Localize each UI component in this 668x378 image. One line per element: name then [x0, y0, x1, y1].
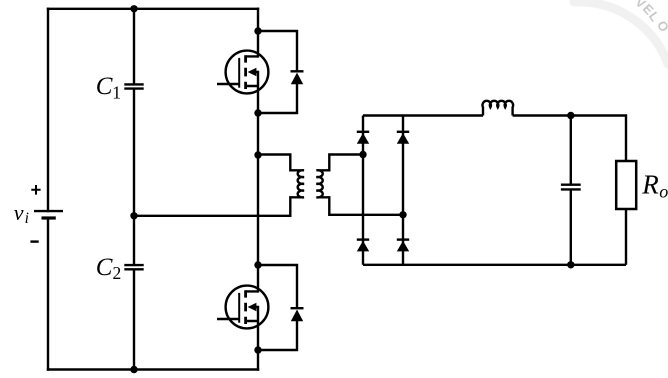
wire resistor bottom lead [625, 209, 627, 265]
voltage source Vi plate long [34, 210, 63, 212]
svg-text:C: C [96, 254, 113, 281]
node Q2 source / D2 [254, 346, 261, 353]
node bottom rail / C branch [130, 366, 137, 373]
diode D3 (upper left) [357, 132, 369, 144]
label + [31, 185, 40, 195]
inductor L [483, 101, 514, 116]
wire mid horizontal to transformer [134, 215, 290, 217]
wire main leg Q2 body to bottom rail [257, 307, 259, 370]
wire bridge right leg [402, 116, 404, 265]
wire diode D1 branch [258, 31, 297, 113]
node secondary top / bridge left leg [359, 151, 366, 158]
wire capacitor branch lower [133, 270, 135, 369]
transformer T1 primary [258, 155, 304, 216]
wire main leg top rail to Q1 drain [257, 9, 259, 57]
node output top / Co [567, 112, 574, 119]
wire bridge top rail [363, 114, 483, 116]
wire capacitor branch middle [133, 90, 135, 264]
diode D2 (Q2 body diode) [291, 308, 304, 321]
node Q1 source / D1 [254, 109, 261, 116]
svg-text:2: 2 [113, 263, 122, 283]
wire diode D2 branch [258, 265, 297, 350]
capacitor Co plates [561, 185, 581, 190]
svg-text:v: v [14, 200, 24, 225]
wire main leg Q1 body to Q2 drain [257, 72, 259, 291]
svg-text:R: R [641, 170, 659, 200]
node output bottom / Co [567, 261, 574, 268]
wire capacitor branch upper [133, 9, 135, 84]
label minus [30, 240, 38, 242]
wire left branch lower [47, 218, 49, 370]
wire bridge left leg [362, 116, 364, 265]
diode D6 (lower right) [397, 240, 409, 252]
wire bridge bottom rail [363, 264, 626, 266]
capacitor Co branch upper [570, 116, 572, 184]
capacitor Co branch lower [570, 191, 572, 265]
diode D5 (lower left) [357, 240, 369, 252]
node capacitor midpoint [130, 212, 137, 219]
svg-text:o: o [659, 181, 668, 201]
wire bottom rail [48, 368, 258, 370]
wire left branch upper [47, 9, 49, 211]
node secondary bottom / bridge right leg [399, 211, 406, 218]
svg-text:1: 1 [112, 82, 121, 102]
watermark ring [574, 2, 668, 64]
node Q1 drain / D1 [254, 27, 261, 34]
wire top rail [48, 8, 258, 10]
diode D4 (upper right) [397, 132, 409, 144]
transformer T1 secondary [316, 155, 403, 215]
capacitor C2 [124, 265, 143, 269]
node top rail / C branch [130, 5, 137, 12]
node switch midpoint / primary [254, 151, 261, 158]
MOSFET Q2 [217, 286, 268, 329]
capacitor C1 [124, 84, 143, 88]
resistor Ro [616, 161, 636, 209]
svg-text:i: i [25, 210, 29, 227]
wire inductor to load [513, 116, 626, 162]
watermark letters VELO [633, 0, 668, 34]
voltage source Vi plate short [42, 216, 56, 219]
svg-text:C: C [96, 73, 113, 100]
diode D1 (Q1 body diode) [291, 71, 304, 84]
MOSFET Q1 [217, 51, 268, 94]
node Q2 drain / D2 [254, 261, 261, 268]
